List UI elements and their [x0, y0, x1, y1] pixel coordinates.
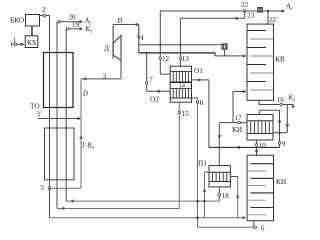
svg-text:КН: КН [276, 177, 287, 186]
svg-text:22: 22 [241, 2, 248, 9]
svg-text:14: 14 [179, 83, 186, 90]
svg-text:17: 17 [235, 115, 242, 122]
svg-text:D: D [116, 17, 122, 25]
svg-text:Д: Д [104, 44, 109, 53]
svg-text:КВ: КВ [275, 56, 285, 64]
svg-text:О2: О2 [150, 95, 159, 104]
svg-text:22': 22' [269, 17, 277, 24]
svg-text:9: 9 [282, 140, 286, 148]
svg-text:23: 23 [247, 13, 254, 20]
svg-text:D: D [82, 90, 88, 98]
svg-text:12: 12 [162, 55, 170, 63]
svg-text:3: 3 [103, 74, 107, 81]
svg-text:19: 19 [72, 21, 80, 29]
svg-text:П1: П1 [198, 159, 207, 168]
svg-text:3': 3' [37, 112, 42, 119]
svg-text:6: 6 [261, 224, 265, 232]
svg-text:6: 6 [200, 99, 204, 107]
svg-text:1: 1 [13, 37, 17, 45]
svg-text:2: 2 [42, 6, 46, 14]
svg-text:18: 18 [222, 192, 230, 200]
svg-text:4: 4 [140, 34, 144, 42]
svg-text:15: 15 [182, 110, 190, 118]
svg-text:О1: О1 [194, 66, 203, 75]
svg-text:КХ: КХ [27, 39, 37, 47]
svg-text:5: 5 [41, 184, 45, 192]
svg-text:КИ: КИ [232, 125, 243, 134]
svg-text:10: 10 [259, 142, 267, 150]
svg-text:7: 7 [149, 76, 153, 84]
svg-text:ТО: ТО [30, 102, 40, 111]
svg-text:БКО: БКО [10, 16, 24, 25]
svg-text:13: 13 [182, 55, 190, 63]
svg-text:16: 16 [277, 97, 284, 104]
